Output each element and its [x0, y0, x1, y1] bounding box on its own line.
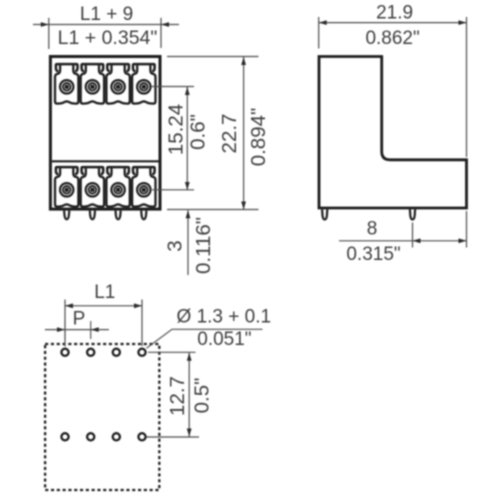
svg-text:0.116": 0.116" [192, 217, 215, 274]
svg-text:L1 + 9: L1 + 9 [80, 4, 133, 25]
svg-text:3: 3 [164, 240, 187, 251]
svg-text:12.7: 12.7 [166, 376, 189, 416]
svg-text:0.315": 0.315" [346, 244, 400, 265]
svg-text:Ø 1.3 + 0.1: Ø 1.3 + 0.1 [177, 307, 272, 328]
svg-text:0.894": 0.894" [247, 108, 270, 167]
svg-text:15.24: 15.24 [165, 104, 188, 155]
svg-text:21.9: 21.9 [376, 3, 413, 24]
svg-text:L1 + 0.354": L1 + 0.354" [58, 27, 158, 49]
svg-text:0.051": 0.051" [197, 329, 251, 350]
svg-text:0.862": 0.862" [365, 28, 419, 49]
svg-text:L1: L1 [94, 282, 115, 303]
svg-text:22.7: 22.7 [218, 114, 241, 154]
svg-text:P: P [73, 309, 86, 330]
svg-text:0.5": 0.5" [191, 378, 214, 414]
svg-text:8: 8 [367, 219, 378, 240]
svg-text:0.6": 0.6" [187, 114, 210, 150]
